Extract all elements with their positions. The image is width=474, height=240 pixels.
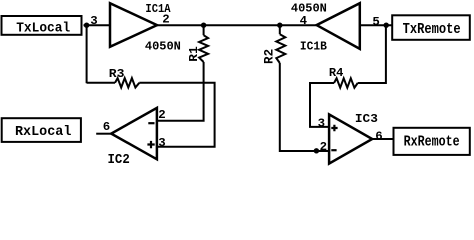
wire R4 right lead up to TxRemote junction (358, 25, 386, 83)
svg-text:2: 2 (320, 140, 327, 154)
wire TxLocal junction down to R3 (86, 25, 88, 83)
node junction dot R1 top (201, 23, 206, 28)
wire R2 top lead (279, 25, 281, 34)
wire R1 top lead (203, 25, 205, 35)
minus input mark IC3 (331, 149, 336, 151)
resistor R1 (199, 35, 208, 62)
svg-text:R2: R2 (263, 49, 277, 64)
svg-text:IC3: IC3 (355, 112, 378, 126)
svg-text:RxRemote: RxRemote (404, 134, 460, 150)
plus input mark IC3 (331, 125, 337, 131)
svg-text:5: 5 (372, 15, 379, 29)
svg-text:4: 4 (300, 14, 308, 28)
node RxLocal box (2, 118, 81, 142)
svg-text:TxRemote: TxRemote (403, 22, 461, 38)
resistor R3 (115, 78, 139, 87)
node junction dot at IC3 pin 2 (314, 148, 319, 153)
svg-text:IC1B: IC1B (300, 39, 328, 53)
wire TxLocal to IC1A input (84, 24, 111, 26)
node junction dot at TxLocal pin 3 (84, 23, 89, 28)
plus input mark IC2 (147, 141, 154, 148)
svg-text:6: 6 (103, 120, 110, 134)
wire IC1A output to IC1B output (shared line) (157, 24, 317, 26)
svg-text:4050N: 4050N (145, 40, 181, 54)
svg-text:2: 2 (162, 12, 169, 26)
wire R3 right lead to IC2 pin3 riser (139, 83, 214, 147)
node junction dot R2 top (277, 23, 282, 28)
wire IC2 output stub (96, 133, 111, 135)
svg-text:2: 2 (158, 108, 165, 122)
resistor R2 (276, 34, 285, 63)
minus input mark IC2 (148, 122, 154, 124)
wire R3 left lead (87, 82, 115, 84)
svg-text:R4: R4 (329, 66, 344, 80)
wire R4 left lead down to IC3 pin3 (310, 83, 334, 127)
svg-text:3: 3 (90, 14, 97, 28)
svg-text:4050N: 4050N (291, 1, 327, 15)
op-amp IC3 (329, 114, 372, 163)
op-amp IC2 (111, 108, 157, 159)
op-amp buffer IC1A (110, 3, 157, 47)
svg-text:3: 3 (318, 116, 325, 130)
wire R1 bottom lead down to IC2 pin2 (158, 62, 204, 121)
svg-text:TxLocal: TxLocal (16, 21, 70, 36)
node TxLocal box (2, 16, 82, 36)
wire IC1B input to TxRemote (360, 24, 392, 26)
svg-text:R3: R3 (109, 67, 125, 81)
node TxRemote box (392, 15, 470, 40)
svg-text:IC2: IC2 (108, 153, 130, 166)
node junction dot at TxRemote pin 5 (384, 23, 389, 28)
svg-text:R1: R1 (187, 46, 201, 62)
resistor R4 (334, 78, 358, 87)
svg-text:6: 6 (375, 130, 382, 144)
svg-text:RxLocal: RxLocal (15, 125, 71, 140)
op-amp buffer IC1B (317, 3, 360, 49)
node RxRemote box (394, 128, 470, 155)
svg-text:3: 3 (158, 136, 165, 150)
wire IC3 output to RxRemote (372, 138, 393, 140)
wire R2 bottom lead down to IC3 pin2 (280, 63, 329, 151)
